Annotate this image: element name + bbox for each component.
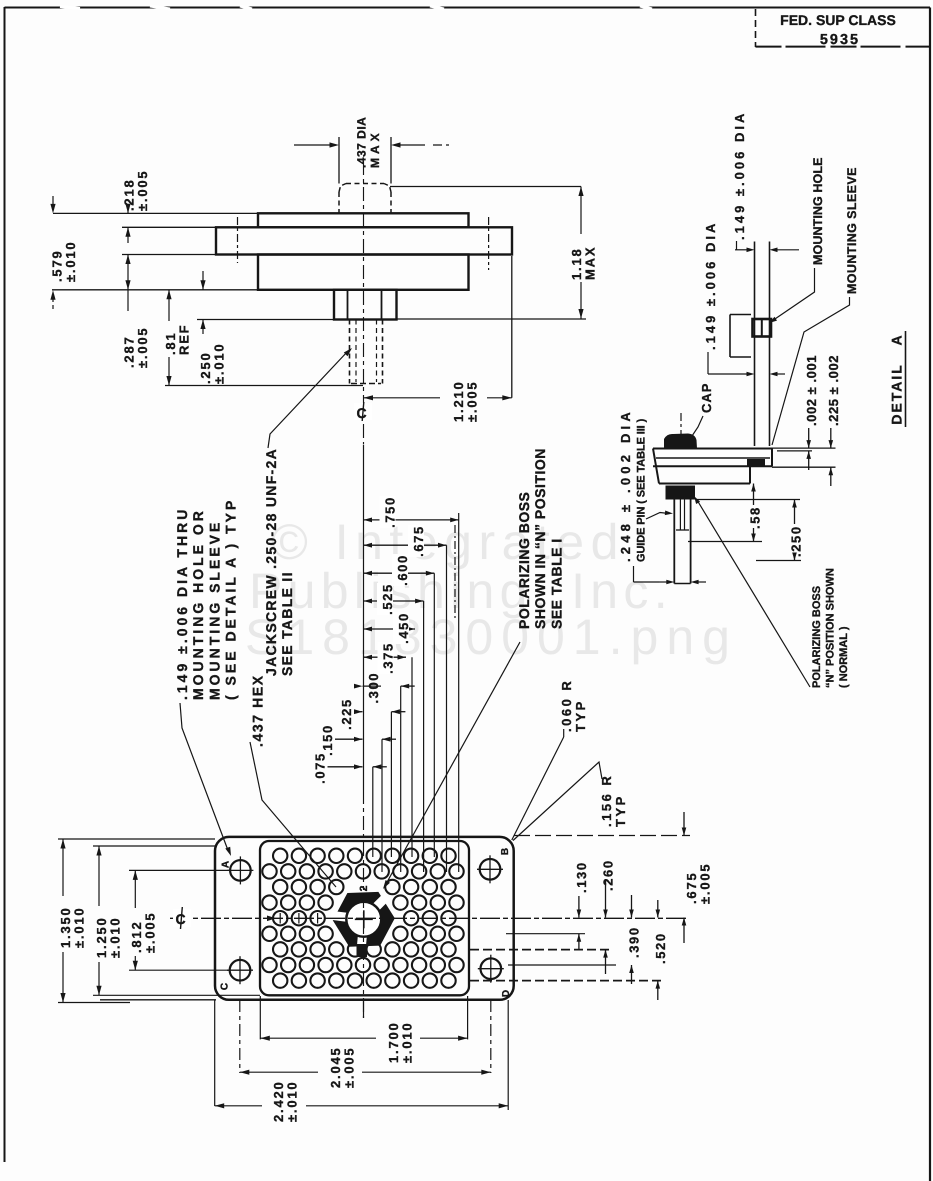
ext .812 top <box>129 869 229 871</box>
svg-text:.150: .150 <box>320 724 335 756</box>
ext pin boss bottom <box>697 499 800 501</box>
dim 1.250 <box>98 846 100 906</box>
leader mounting hole <box>772 268 815 321</box>
svg-text:.58: .58 <box>748 506 763 529</box>
svg-text:TYP: TYP <box>573 699 588 732</box>
svg-text:CAP: CAP <box>699 383 714 413</box>
jackscrew threaded shaft (dashed) <box>349 320 351 384</box>
hex boss bottom tab <box>357 944 368 957</box>
detail A hole walls <box>754 242 756 447</box>
svg-text:MOUNTING SLEEVE: MOUNTING SLEEVE <box>845 167 859 294</box>
dim .520 <box>657 900 659 918</box>
row5 hole ticks <box>279 913 281 924</box>
jackscrew head hidden (dashed) <box>338 192 340 213</box>
svg-text:.149 ±.006 DIA: .149 ±.006 DIA <box>703 221 718 350</box>
ext line C step <box>772 466 836 468</box>
svg-text:.600: .600 <box>395 554 410 586</box>
dim .002 <box>808 428 810 448</box>
svg-text:A: A <box>221 860 232 868</box>
row6 ext line <box>506 933 585 935</box>
page border right <box>929 8 931 1181</box>
svg-text:.375: .375 <box>381 642 396 674</box>
svg-text:B: B <box>500 847 511 855</box>
dim .287 <box>127 255 129 290</box>
ext line body top <box>53 212 258 214</box>
ext insert bottom verticals <box>259 996 261 1039</box>
svg-text:.002 ± .001: .002 ± .001 <box>804 355 819 426</box>
svg-text:.750: .750 <box>383 496 398 528</box>
dim .250 (jackscrew) <box>202 271 204 290</box>
svg-text:C: C <box>220 982 231 990</box>
svg-text:±.010: ±.010 <box>212 343 227 384</box>
dim 1.350 <box>62 839 64 896</box>
svg-text:FED. SUP CLASS: FED. SUP CLASS <box>780 12 896 28</box>
svg-text:5935: 5935 <box>820 32 860 48</box>
dim .225 detail <box>830 428 832 448</box>
svg-text:.390: .390 <box>627 926 642 958</box>
side view main body rect <box>258 255 469 290</box>
svg-text:JACKSCREW .250-28 UNF-2A: JACKSCREW .250-28 UNF-2A <box>263 448 279 676</box>
svg-text:±.010: ±.010 <box>63 241 78 282</box>
detail A dim .149 lower <box>707 352 709 374</box>
centerline symbol front view <box>173 909 191 927</box>
svg-text:.525: .525 <box>380 583 395 615</box>
svg-text:.060 R: .060 R <box>559 679 574 732</box>
page border left <box>4 7 6 1162</box>
dim .250 detail <box>794 500 796 525</box>
svg-text:SHOWN IN “N” POSITION: SHOWN IN “N” POSITION <box>532 448 548 629</box>
ext flange edge verticals <box>214 1000 216 1106</box>
row8 ext line <box>508 964 616 966</box>
dim 1.210 <box>364 397 441 399</box>
svg-text:( SEE DETAIL A ) TYP: ( SEE DETAIL A ) TYP <box>223 498 239 700</box>
svg-text:“N” POSITION SHOWN: “N” POSITION SHOWN <box>824 568 836 688</box>
leader .248 dia <box>633 566 635 582</box>
svg-text:S181830001.png: S181830001.png <box>245 609 738 665</box>
ext hole centerline verticals <box>239 1000 241 1073</box>
mounting hole BR <box>481 958 502 979</box>
svg-text:±.010: ±.010 <box>108 917 123 958</box>
ext 1.350 bottom <box>58 1002 130 1004</box>
ext .58 bottom <box>688 541 762 543</box>
svg-text:.149 ±.006 DIA: .149 ±.006 DIA <box>732 111 747 240</box>
guide pin shaft <box>673 500 675 584</box>
ext line flange bottom left <box>122 254 216 256</box>
flange right extension line <box>511 256 513 398</box>
svg-text:±.010: ±.010 <box>400 1022 415 1063</box>
ext line shaft bottom <box>165 385 363 387</box>
side view centerline <box>363 161 365 398</box>
side view centerline lower <box>363 398 365 444</box>
svg-text:MAX: MAX <box>583 246 598 280</box>
ext line flange top left <box>122 226 216 228</box>
right mounting hole centerline <box>488 217 490 270</box>
svg-text:±.005: ±.005 <box>143 912 158 953</box>
centerline symbol side view <box>354 403 372 420</box>
svg-text:POLARIZING BOSS: POLARIZING BOSS <box>516 492 532 629</box>
svg-text:REF: REF <box>177 324 192 355</box>
svg-text:SEE TABLE I: SEE TABLE I <box>548 538 564 629</box>
ext line body bottom <box>52 289 258 291</box>
svg-text:.437 HEX: .437 HEX <box>249 674 265 747</box>
dim .260 <box>605 879 607 918</box>
row7 ext line <box>470 949 612 951</box>
dim .218 <box>127 205 129 213</box>
dim 1.700 <box>260 1037 376 1039</box>
polarizing boss section (black) <box>747 459 765 467</box>
svg-text:.250: .250 <box>789 525 804 557</box>
leader cap <box>692 416 703 436</box>
svg-text:D: D <box>501 989 512 997</box>
svg-text:MOUNTING HOLE: MOUNTING HOLE <box>811 157 825 265</box>
svg-text:±.005: ±.005 <box>465 381 480 422</box>
svg-text:±.005: ±.005 <box>135 170 150 211</box>
row9 ext line <box>470 980 663 982</box>
svg-text:.130: .130 <box>574 861 589 893</box>
dim 1.18 MAX <box>390 186 581 188</box>
leader polarizing boss <box>386 642 520 884</box>
dim .812 <box>134 870 136 908</box>
ext .250 bottom <box>756 560 801 562</box>
dim 2.420 <box>215 1105 262 1107</box>
svg-text:.075: .075 <box>313 752 328 784</box>
svg-text:±.005: ±.005 <box>342 1047 357 1088</box>
svg-text:DETAIL A: DETAIL A <box>888 333 904 424</box>
svg-text:2: 2 <box>358 885 370 892</box>
side view flange rect <box>216 227 512 254</box>
pin centerline <box>680 413 682 448</box>
dim .675 <box>683 812 685 836</box>
leader .060R <box>563 729 565 737</box>
leader guide pin <box>646 513 669 520</box>
svg-text:.149 ±.006 DIA THRU: .149 ±.006 DIA THRU <box>174 507 190 700</box>
svg-text:SEE TABLE II: SEE TABLE II <box>279 571 295 676</box>
ext insert bottom left <box>93 994 260 996</box>
dim .58 <box>753 484 755 506</box>
detail A flange section <box>653 448 772 450</box>
svg-text:±.005: ±.005 <box>135 327 150 368</box>
leader .156R <box>513 762 602 841</box>
ext .812 bottom <box>129 969 229 971</box>
svg-text:±.005: ±.005 <box>698 863 713 904</box>
dim .390 <box>631 895 633 918</box>
svg-text:MOUNTING HOLE OR: MOUNTING HOLE OR <box>190 508 206 700</box>
mounting sleeve bracket <box>730 314 751 316</box>
detail A dim .149 upper <box>735 249 751 251</box>
side view body top rect <box>258 213 469 227</box>
contact spacing dimension ladder <box>363 445 365 790</box>
leader .437 hex <box>250 742 336 887</box>
mounting hole BL <box>230 960 251 981</box>
svg-text:.300: .300 <box>366 672 381 704</box>
ext flange top left <box>58 838 215 840</box>
side view jackscrew hex <box>334 290 397 320</box>
svg-text:±.010: ±.010 <box>285 1081 300 1122</box>
front view insert outline <box>260 841 469 995</box>
svg-text:POLARIZING BOSS: POLARIZING BOSS <box>811 586 823 688</box>
front view vertical centerline <box>363 790 365 1018</box>
ext line A flange top right <box>771 447 836 449</box>
svg-text:.450: .450 <box>396 612 411 644</box>
svg-text:.156 R: .156 R <box>599 774 614 827</box>
cap (black) <box>664 434 697 449</box>
ext flange top right <box>514 835 690 837</box>
leader polarizing normal <box>697 500 810 687</box>
leader mounting sleeve <box>772 297 850 445</box>
svg-text:.675: .675 <box>411 525 426 557</box>
dim .579 <box>50 204 55 214</box>
ladder extension verticals <box>372 767 374 857</box>
fed sup class box <box>755 9 757 47</box>
svg-text:.437 DIA: .437 DIA <box>355 117 369 168</box>
front view horizontal centerline <box>170 917 688 919</box>
svg-text:.248 ± .002 DIA: .248 ± .002 DIA <box>618 408 633 562</box>
svg-text:© Integrated: © Integrated <box>271 514 625 570</box>
ext line B contact plane <box>777 450 812 452</box>
dim .130 <box>578 896 580 918</box>
ext 1.250 top <box>93 845 216 847</box>
mounting hole TR <box>480 859 501 880</box>
svg-text:( NORMAL ): ( NORMAL ) <box>838 626 850 688</box>
dim .437 DIA MAX <box>338 137 340 184</box>
svg-text:MAX: MAX <box>368 129 382 168</box>
leader jackscrew <box>268 351 348 448</box>
svg-text:.225 ± .002: .225 ± .002 <box>826 355 841 426</box>
mounting hole TL <box>230 860 251 881</box>
svg-text:MOUNTING SLEEVE: MOUNTING SLEEVE <box>206 520 222 700</box>
contact hole grid <box>273 849 287 863</box>
svg-text:.260: .260 <box>601 859 616 891</box>
mounting sleeve box <box>753 319 772 337</box>
leader .149 label to hole <box>180 703 228 849</box>
svg-text:GUIDE PIN ( SEE TABLE III ): GUIDE PIN ( SEE TABLE III ) <box>635 418 647 562</box>
svg-text:TYP: TYP <box>613 794 628 827</box>
page border top <box>5 7 931 9</box>
centerline bottom stub <box>363 1000 365 1018</box>
centerline arrowhead row5 <box>267 916 276 922</box>
svg-text:.225: .225 <box>339 698 354 730</box>
left mounting hole centerline <box>237 217 239 263</box>
svg-text:.520: .520 <box>653 932 668 964</box>
center hex polarizing boss <box>333 892 395 947</box>
ext line hex bottom <box>197 319 334 321</box>
dim .81 REF <box>168 290 170 321</box>
ext flange bottom left <box>100 999 216 1001</box>
front view flange outline <box>215 837 514 1000</box>
guide pin boss (black) <box>666 486 696 500</box>
svg-text:±.010: ±.010 <box>72 907 87 948</box>
dim 2.045 <box>240 1071 318 1073</box>
